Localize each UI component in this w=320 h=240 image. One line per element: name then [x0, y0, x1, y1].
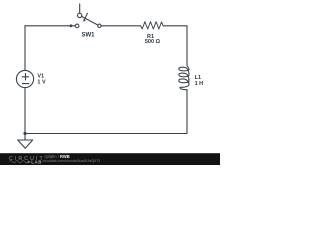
svg-text:circuitlab.com/circuits/6ua919: circuitlab.com/circuits/6ua919x2j573: [43, 159, 101, 163]
svg-text:500 Ω: 500 Ω: [145, 39, 161, 45]
svg-text:1 V: 1 V: [37, 79, 46, 85]
svg-text:SW1: SW1: [81, 33, 95, 39]
svg-text:LAB: LAB: [31, 159, 42, 164]
svg-text:1 H: 1 H: [195, 81, 204, 87]
svg-text:L1: L1: [195, 75, 201, 81]
